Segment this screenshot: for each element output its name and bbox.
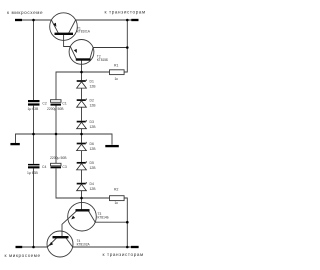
svg-text:12В: 12В [90, 84, 97, 88]
svg-text:12В: 12В [90, 187, 97, 191]
svg-text:C3: C3 [62, 165, 66, 169]
svg-text:к микросхеме: к микросхеме [5, 253, 41, 258]
svg-text:к транзисторам: к транзисторам [105, 10, 146, 15]
svg-text:КТ8101А: КТ8101А [77, 30, 91, 34]
svg-text:КТ814Б: КТ814Б [98, 215, 109, 219]
svg-text:R2: R2 [114, 187, 118, 191]
svg-text:R1: R1 [114, 63, 118, 67]
svg-text:D4: D4 [90, 182, 94, 186]
svg-text:D2: D2 [90, 99, 94, 103]
svg-text:к микросхеме: к микросхеме [7, 10, 43, 15]
svg-text:D1: D1 [90, 79, 94, 83]
svg-text:1μ 63В: 1μ 63В [28, 107, 40, 111]
svg-text:КТ8102А: КТ8102А [77, 242, 91, 246]
svg-text:к транзисторам: к транзисторам [103, 252, 144, 257]
svg-text:D6: D6 [90, 142, 94, 146]
svg-text:1μ 63В: 1μ 63В [27, 171, 39, 175]
svg-text:12В: 12В [90, 147, 97, 151]
svg-text:1к: 1к [115, 77, 119, 81]
svg-text:12В: 12В [90, 166, 97, 170]
svg-text:C2: C2 [42, 102, 46, 106]
svg-text:2200μ 50В: 2200μ 50В [50, 156, 67, 160]
svg-text:D5: D5 [90, 161, 94, 165]
svg-text:КТ815Б: КТ815Б [97, 58, 108, 62]
svg-text:12В: 12В [90, 125, 97, 129]
svg-text:D3: D3 [90, 120, 94, 124]
svg-text:12В: 12В [90, 104, 97, 108]
svg-text:2200μ 50В: 2200μ 50В [47, 107, 64, 111]
svg-text:1к: 1к [115, 201, 119, 205]
svg-text:C4: C4 [42, 165, 46, 169]
svg-text:C1: C1 [62, 102, 66, 106]
